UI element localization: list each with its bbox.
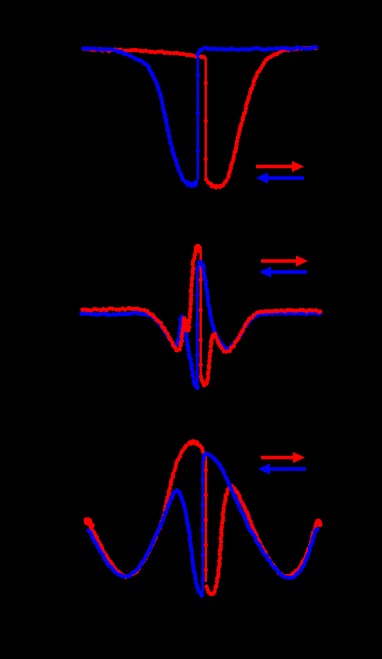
panel1 red arrow (sweep right)	[256, 165, 294, 168]
panel3 red start blob	[84, 517, 95, 528]
panel2 blue jump line	[196, 271, 198, 387]
panel3 red summit cluster	[188, 439, 200, 446]
panel1 blue dip and left flank	[84, 49, 197, 184]
panel2 red jump line	[199, 253, 201, 376]
panel3 red arrow (sweep right)	[261, 456, 295, 459]
panel1 blue dip bottom cluster	[186, 182, 198, 188]
panel3 red right tip blob	[315, 519, 323, 528]
panel2 blue left part	[82, 313, 198, 388]
panel3 blue arrow (sweep left)	[268, 467, 306, 470]
panel1 red baseline	[84, 50, 205, 58]
panel1 red dip bottom cluster	[210, 184, 223, 190]
panel2 blue apex cluster	[197, 260, 206, 269]
panel3 blue left side and central dip	[89, 490, 202, 595]
panel2 red trough and right part	[201, 311, 320, 385]
panel3 blue jump line	[201, 461, 203, 593]
panel2 blue peak and right part	[198, 265, 320, 348]
panel2 red left part and peak	[82, 248, 200, 351]
panel2 red arrow (sweep right)	[261, 259, 298, 262]
panel1 blue baseline	[198, 48, 316, 55]
panel2 blue arrow (sweep left)	[269, 270, 307, 273]
panel1 red dip and right flank	[207, 48, 317, 187]
panel1 blue jump line	[197, 56, 199, 180]
panel1 red jump line	[204, 58, 206, 179]
panel3 red central dip and right side	[207, 486, 320, 594]
panel3 red left flank and summit	[86, 442, 205, 576]
panel2 red apex cluster	[194, 244, 202, 251]
panel1 blue arrow (sweep left)	[266, 176, 304, 179]
panel3 blue summit and right flank	[203, 454, 317, 578]
panel3 red jump line	[205, 456, 207, 582]
